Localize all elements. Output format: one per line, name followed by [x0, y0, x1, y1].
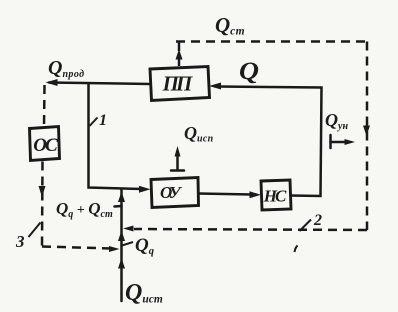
- svg-text:ОС: ОС: [33, 135, 58, 156]
- svg-text:3: 3: [15, 232, 25, 251]
- svg-text:НС: НС: [263, 187, 287, 206]
- svg-text:ПП: ПП: [162, 72, 193, 96]
- svg-text:Q: Q: [239, 58, 259, 85]
- svg-text:2: 2: [313, 212, 322, 229]
- svg-text:1: 1: [99, 112, 107, 129]
